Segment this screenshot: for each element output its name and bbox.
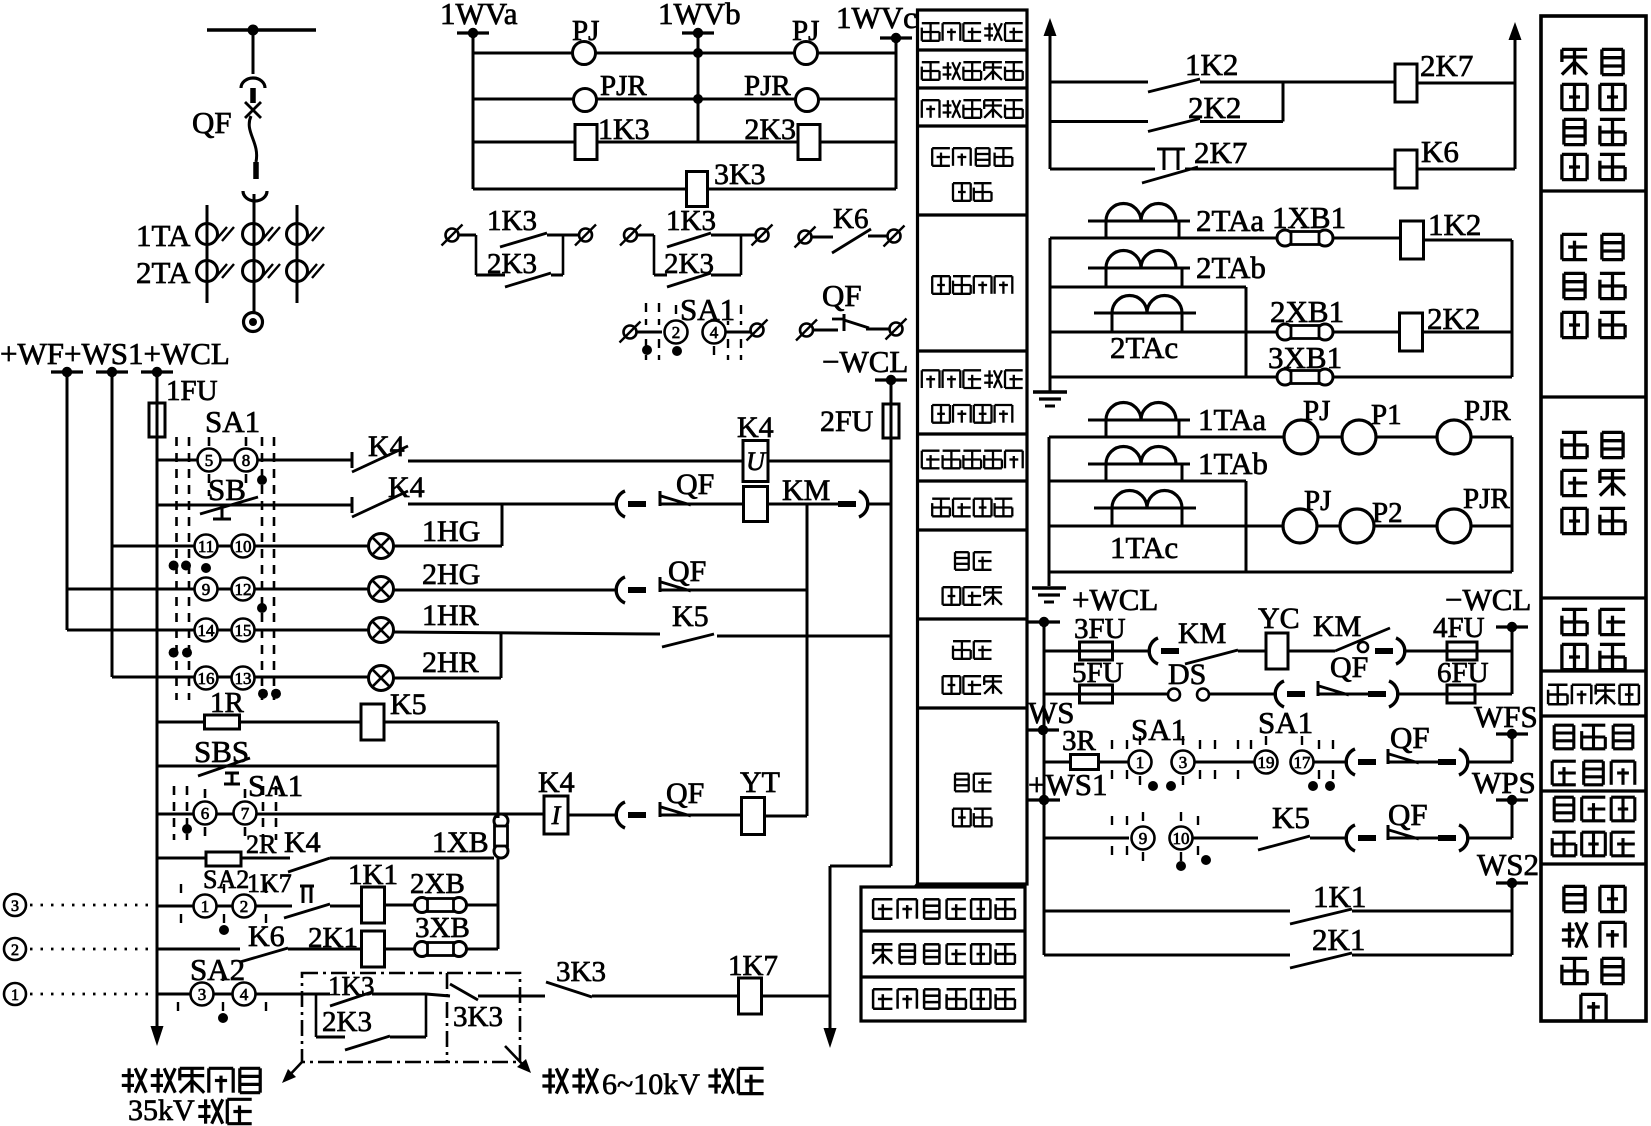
- wire 1WVb vertical: [697, 33, 700, 142]
- svg-text:PJR: PJR: [1464, 395, 1511, 427]
- svg-text:10: 10: [1173, 829, 1190, 848]
- wire right rail R2: [1511, 240, 1514, 377]
- svg-text:QF: QF: [1330, 651, 1368, 684]
- ground R2: [1033, 390, 1067, 393]
- wire 1K7 to down arrow: [762, 995, 830, 998]
- svg-text:PJR: PJR: [1463, 483, 1510, 515]
- svg-text:QF: QF: [192, 105, 232, 140]
- label cell overcurrent protection: [1562, 234, 1587, 259]
- svg-text:YT: YT: [740, 766, 780, 799]
- svg-text:2K3: 2K3: [322, 1006, 372, 1038]
- svg-text:K4: K4: [368, 430, 405, 463]
- node +WCL: [141, 370, 173, 373]
- wire K5 coil to right corner: [384, 721, 498, 724]
- breaker QF blade curve: [249, 116, 256, 162]
- svg-text:2TA: 2TA: [136, 255, 191, 290]
- svg-text:1K1: 1K1: [1313, 879, 1366, 914]
- lower small table: [861, 887, 1025, 1021]
- svg-text:15: 15: [235, 621, 252, 640]
- wire 2TAb row: [1050, 286, 1246, 289]
- fuse 1FU: [149, 403, 165, 437]
- arrow protection bus left: [1049, 22, 1052, 52]
- contact QF closing row: [616, 491, 625, 517]
- wire PJR rail: [473, 98, 896, 101]
- arrow box left: [285, 1062, 302, 1080]
- wire 1TAc row: [1049, 525, 1283, 528]
- wire left rail R2: [1049, 238, 1052, 392]
- svg-text:K5: K5: [1272, 800, 1310, 835]
- svg-text:2FU: 2FU: [820, 405, 874, 438]
- wire left rail R3: [1048, 437, 1051, 586]
- svg-text:4: 4: [240, 985, 249, 1004]
- svg-text:K4: K4: [388, 471, 425, 504]
- svg-text:1K3: 1K3: [598, 113, 650, 146]
- svg-text:SA2: SA2: [190, 952, 245, 987]
- wire K4 no.2 to KM row: [408, 503, 618, 506]
- wire row5-8 to coil K4: [408, 460, 743, 463]
- arrow bottom middle: [829, 1012, 832, 1042]
- svg-text:2TAb: 2TAb: [1196, 250, 1266, 285]
- svg-text:SA1: SA1: [205, 404, 260, 439]
- wire 1WVc vertical: [895, 38, 898, 189]
- svg-text:1FU: 1FU: [166, 375, 218, 407]
- svg-text:K5: K5: [672, 600, 709, 633]
- svg-text:4: 4: [710, 323, 719, 342]
- svg-text:2K1: 2K1: [1312, 922, 1365, 957]
- label cell time-delay quick-break: [1562, 49, 1587, 74]
- svg-text:8: 8: [242, 451, 251, 470]
- CT 1TAb: [1088, 463, 1190, 466]
- wire rail +WS1: [111, 372, 114, 677]
- svg-text:3: 3: [1179, 753, 1188, 772]
- node +WF: [51, 370, 83, 373]
- svg-text:2K7: 2K7: [1194, 135, 1247, 170]
- svg-text:1WVc: 1WVc: [836, 0, 917, 35]
- wire 1HG loop up: [501, 504, 504, 546]
- wire K4U rail end: [768, 460, 891, 463]
- caption from 6-10kV bus: [542, 1068, 567, 1093]
- circled 3 tap: [4, 894, 26, 916]
- arrow rail +WCL bottom: [156, 1012, 159, 1040]
- breaker QF cross mark: [245, 102, 261, 118]
- wire vertical KM-QF-YT rail: [806, 504, 809, 816]
- svg-text:K6: K6: [1421, 134, 1459, 169]
- svg-text:−WCL: −WCL: [1445, 582, 1531, 617]
- wire right rail R1: [1514, 52, 1517, 169]
- svg-text:6~10kV: 6~10kV: [602, 1068, 700, 1101]
- wire bottom row R3: [1049, 571, 1512, 574]
- svg-text:13: 13: [235, 669, 252, 688]
- svg-text:1WVb: 1WVb: [658, 0, 741, 31]
- svg-text:QF: QF: [1390, 720, 1430, 755]
- svg-text:5: 5: [205, 451, 214, 470]
- middle function table: [918, 10, 1028, 884]
- svg-text:3K3: 3K3: [453, 1001, 503, 1033]
- svg-text:10: 10: [235, 537, 252, 556]
- label cell flag not reset signal: [1564, 886, 1585, 911]
- svg-text:SA1: SA1: [1258, 705, 1313, 740]
- breaker QF lower plug contact: [253, 162, 259, 179]
- wire 3K3 rail: [473, 188, 896, 191]
- wire rail +WCL: [156, 372, 159, 1012]
- svg-text:3FU: 3FU: [1074, 613, 1126, 645]
- svg-text:2TAc: 2TAc: [1110, 330, 1178, 365]
- wire 1TAa row: [1049, 436, 1284, 439]
- svg-text:+WCL: +WCL: [1072, 582, 1158, 617]
- svg-text:3R: 3R: [1062, 725, 1097, 757]
- svg-text:14: 14: [198, 621, 216, 640]
- wire bus to breaker: [252, 30, 255, 74]
- svg-text:1HR: 1HR: [422, 599, 479, 632]
- svg-text:6: 6: [201, 804, 210, 823]
- switch SA1 contacts 11-10 row; lamp 1HG: [112, 545, 369, 548]
- wire 2HR loop up: [500, 634, 503, 678]
- external contact K6: [799, 231, 812, 244]
- wire PJ rail: [473, 52, 896, 55]
- svg-text:+WS1: +WS1: [1028, 767, 1107, 802]
- svg-text:QF: QF: [666, 777, 704, 810]
- switch SA1 contacts 5-8 row: [157, 459, 352, 462]
- svg-text:16: 16: [198, 669, 215, 688]
- label cell electrical interlock: [1548, 685, 1567, 704]
- svg-text:1K3: 1K3: [666, 205, 716, 237]
- svg-text:1TA: 1TA: [136, 218, 191, 253]
- svg-text:DS: DS: [1168, 658, 1206, 691]
- CT 2TAc: [1094, 312, 1196, 315]
- svg-text:K5: K5: [390, 688, 427, 721]
- label cell trip circuit broken: [1554, 797, 1574, 821]
- wire right rail R3: [1511, 437, 1514, 572]
- svg-text:1XB: 1XB: [432, 826, 489, 859]
- svg-text:KM: KM: [1313, 610, 1361, 643]
- svg-text:19: 19: [1258, 753, 1275, 772]
- svg-text:WPS: WPS: [1472, 765, 1536, 800]
- bus 35kV: [207, 28, 316, 32]
- svg-text:3XB: 3XB: [415, 912, 470, 944]
- svg-text:2HR: 2HR: [422, 646, 479, 679]
- svg-text:WFS: WFS: [1474, 699, 1538, 734]
- wire to QF plug: [568, 814, 618, 817]
- svg-text:1: 1: [1136, 753, 1145, 772]
- external contact group 1K3/2K3 no.1: [446, 229, 459, 242]
- contact QF of row 2HG: [616, 577, 625, 603]
- wire KM to plug close: [767, 503, 838, 506]
- svg-text:−WCL: −WCL: [822, 344, 908, 379]
- svg-text:2K7: 2K7: [1420, 48, 1473, 83]
- CT 2TAb: [1088, 267, 1190, 270]
- svg-text:11: 11: [198, 537, 214, 556]
- svg-text:SBS: SBS: [194, 734, 249, 769]
- svg-text:K4: K4: [284, 826, 321, 859]
- svg-text:1HG: 1HG: [422, 515, 480, 548]
- svg-text:1K2: 1K2: [1185, 47, 1238, 82]
- node +WS1: [96, 370, 128, 373]
- svg-text:PJR: PJR: [744, 70, 791, 102]
- svg-text:KM: KM: [782, 474, 830, 507]
- contact K4 no.2: [352, 491, 408, 517]
- svg-text:2: 2: [672, 323, 681, 342]
- coil K5: [240, 721, 361, 724]
- svg-text:35kV: 35kV: [128, 1094, 195, 1126]
- switch SA1 dashed columns upper: [175, 437, 178, 700]
- switch SA1 contacts 9-12 row; lamp 2HG: [67, 588, 369, 591]
- svg-text:1TAc: 1TAc: [1110, 530, 1178, 565]
- wire breaker to CTs: [253, 194, 256, 314]
- contact QF trip row: [616, 802, 625, 828]
- svg-text:+WF+WS1+WCL: +WF+WS1+WCL: [0, 336, 230, 371]
- svg-text:2: 2: [11, 942, 19, 959]
- cable termination: [244, 313, 263, 332]
- ground R3: [1032, 586, 1066, 589]
- svg-text:P1: P1: [1371, 399, 1402, 431]
- svg-text:3: 3: [198, 985, 207, 1004]
- CT 1TAa: [1088, 419, 1190, 422]
- circled 2 tap: [4, 938, 26, 960]
- svg-text:PJR: PJR: [600, 70, 647, 102]
- breaker QF upper plug contact: [241, 78, 265, 88]
- svg-text:2TAa: 2TAa: [1196, 203, 1264, 238]
- circled 1 tap: [4, 983, 26, 1005]
- svg-text:1WVa: 1WVa: [440, 0, 518, 31]
- resistor 1R: [157, 721, 204, 724]
- svg-text:2XB: 2XB: [410, 868, 465, 900]
- svg-text:7: 7: [241, 804, 250, 823]
- contact QF row 5FU: [1275, 681, 1284, 707]
- contact K4 no.1: [352, 446, 408, 472]
- svg-text:2HG: 2HG: [422, 558, 480, 591]
- switch SA1 contacts 14-15 row; lamp 1HR: [67, 629, 369, 632]
- label cell current measuring: [1562, 432, 1587, 457]
- svg-text:3K3: 3K3: [714, 158, 766, 191]
- wire 2TAc row: [1050, 331, 1277, 334]
- svg-text:K6: K6: [248, 920, 285, 953]
- svg-text:KM: KM: [1178, 617, 1226, 650]
- svg-text:1K3: 1K3: [487, 205, 537, 237]
- coil KM contactor: [744, 487, 768, 522]
- svg-text:QF: QF: [822, 278, 862, 313]
- CT 2TAa: [1088, 220, 1190, 223]
- svg-text:K4: K4: [538, 766, 575, 799]
- wire right vertical of rows 1-3: [497, 858, 500, 949]
- wire 1WVa vertical: [472, 33, 475, 189]
- contact QF signal row: [1346, 749, 1355, 775]
- dashed box another 35kV section: [302, 973, 520, 1062]
- resistor 2R: [157, 857, 207, 860]
- wire neutral row 3XB1: [1050, 376, 1277, 379]
- arrow box right: [505, 1046, 528, 1070]
- svg-text:QF: QF: [1388, 797, 1428, 832]
- wire YT to rail: [765, 815, 808, 818]
- external contact group 1K3/2K3 no.2: [624, 229, 637, 242]
- switch SA1 contacts 9-10: [1044, 837, 1129, 840]
- svg-text:1TAa: 1TAa: [1198, 402, 1266, 437]
- svg-text:1K2: 1K2: [1428, 207, 1481, 242]
- svg-text:WS2: WS2: [1477, 847, 1539, 882]
- svg-text:1: 1: [201, 897, 210, 916]
- svg-text:U: U: [746, 447, 767, 476]
- arrow protection bus right: [1514, 26, 1517, 56]
- svg-text:9: 9: [202, 580, 211, 599]
- svg-text:1K7: 1K7: [247, 869, 292, 898]
- svg-text:17: 17: [1294, 753, 1312, 772]
- CT 1TAc: [1094, 507, 1196, 510]
- svg-text:3K3: 3K3: [556, 956, 606, 988]
- wire 1K3 rail: [473, 141, 896, 144]
- svg-text:2K3: 2K3: [744, 113, 796, 146]
- svg-text:P2: P2: [1372, 497, 1403, 529]
- contact QF supervision row: [1346, 825, 1355, 851]
- wire table stub: [915, 884, 918, 887]
- contact KM no.1: [1149, 638, 1158, 664]
- svg-text:3: 3: [11, 898, 19, 915]
- svg-text:YC: YC: [1258, 602, 1300, 635]
- svg-text:1TAb: 1TAb: [1198, 446, 1268, 481]
- wire left rail R4: [1043, 622, 1046, 955]
- wire to coil 2K7: [1283, 81, 1395, 84]
- svg-text:1: 1: [11, 987, 19, 1004]
- wire left rail R1: [1049, 48, 1052, 169]
- wire 2TAa row: [1050, 237, 1277, 240]
- svg-text:SA1: SA1: [248, 768, 303, 803]
- wire 1TAb row: [1049, 480, 1246, 483]
- wire right rail R4: [1511, 627, 1514, 694]
- svg-text:K6: K6: [833, 203, 868, 235]
- svg-text:12: 12: [235, 580, 252, 599]
- svg-text:1K3: 1K3: [328, 971, 375, 1001]
- svg-text:QF: QF: [668, 555, 706, 588]
- caption from another 35kV bus: [122, 1068, 146, 1092]
- svg-text:2: 2: [240, 897, 249, 916]
- svg-text:2R: 2R: [246, 830, 277, 859]
- CT phase lines: [206, 205, 209, 303]
- svg-text:QF: QF: [676, 468, 714, 501]
- label cell accident trip signal: [1554, 725, 1574, 749]
- svg-text:I: I: [551, 801, 562, 830]
- wire rail -WCL down: [890, 380, 893, 866]
- svg-text:9: 9: [1139, 829, 1148, 848]
- svg-text:SA2: SA2: [203, 865, 249, 894]
- wire rail +WF: [66, 372, 69, 630]
- switch SA1 contacts 16-13 row; lamp 2HR: [112, 676, 369, 679]
- label cell closing circuit: [1562, 609, 1587, 634]
- wire 2K2 jog up: [1282, 82, 1285, 122]
- wire jog to arrow: [830, 865, 891, 868]
- right function table: [1541, 16, 1646, 1021]
